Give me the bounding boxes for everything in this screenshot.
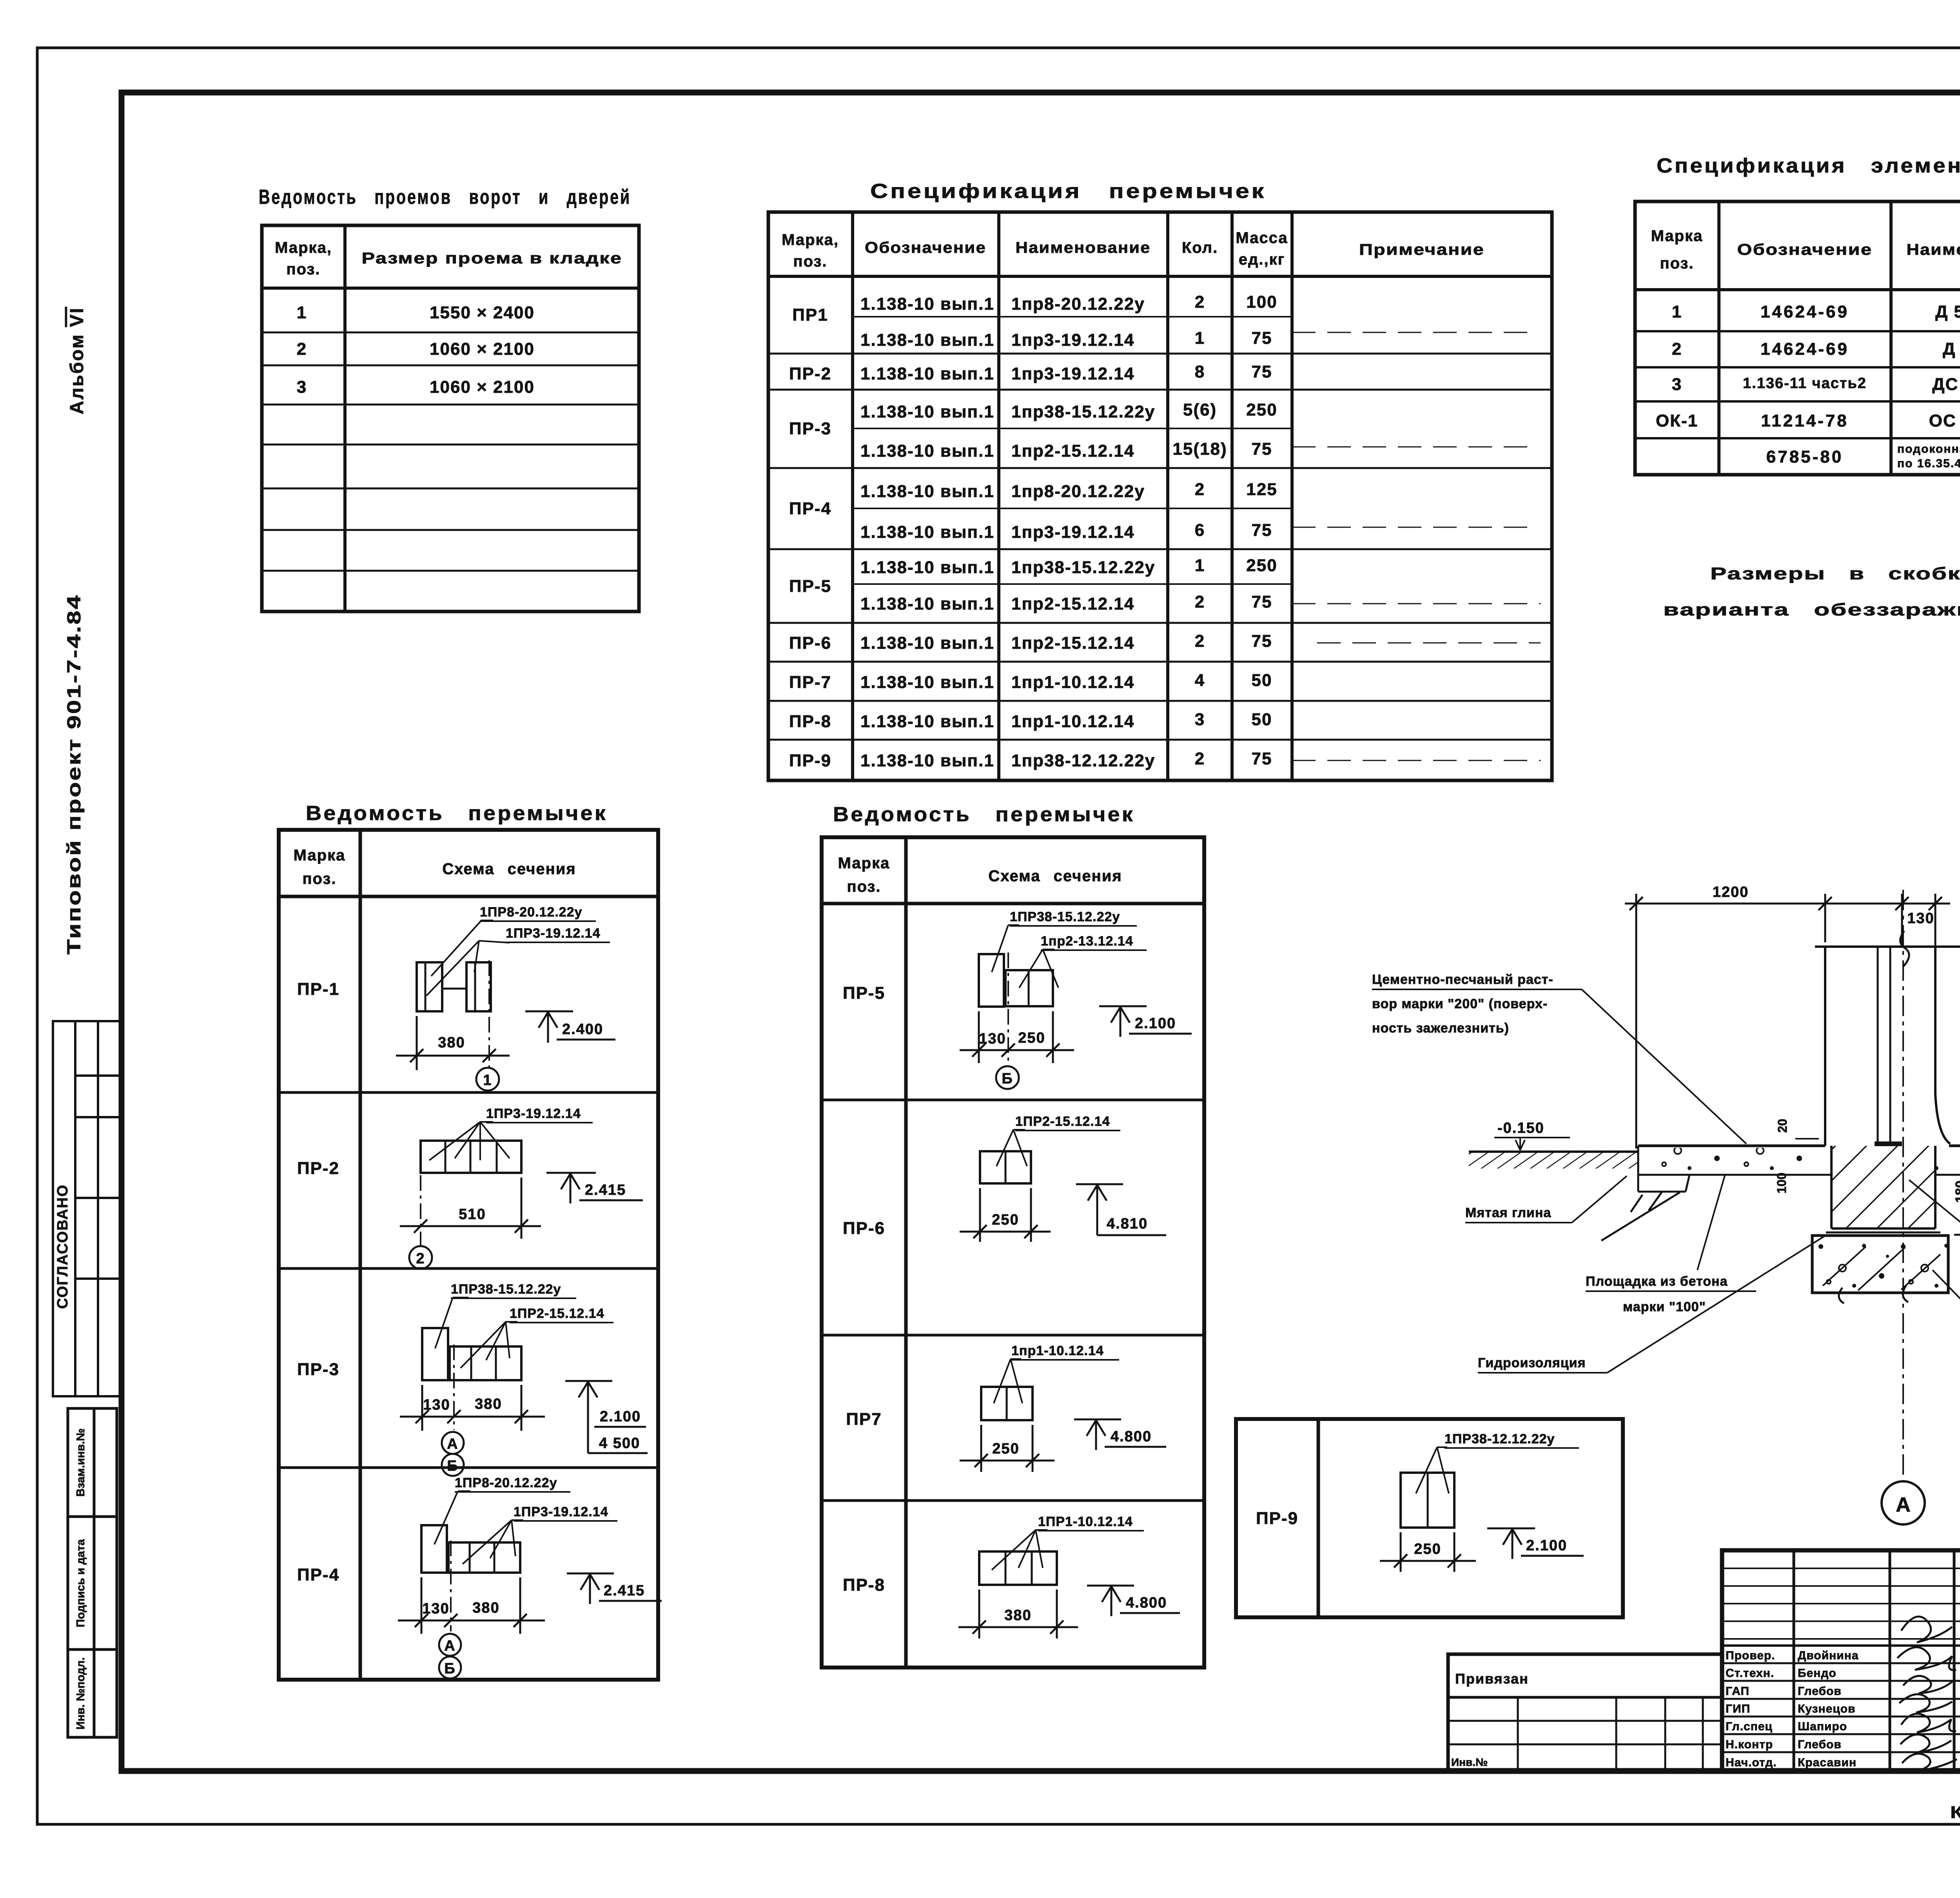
svg-text:ПР-4: ПР-4	[789, 499, 831, 518]
PR-5 node circle B	[996, 1066, 1019, 1089]
svg-text:Глебов: Глебов	[1798, 1738, 1842, 1751]
leader fundament	[1933, 1270, 1960, 1341]
node circle A	[1882, 1481, 1925, 1524]
svg-text:1.136-11 часть2: 1.136-11 часть2	[1743, 375, 1867, 392]
svg-text:1.138-10 вып.1: 1.138-10 вып.1	[860, 673, 995, 692]
PR-2 centerline	[420, 1175, 421, 1246]
svg-text:Ведомость перемычек: Ведомость перемычек	[306, 802, 608, 825]
svg-text:1: 1	[1195, 556, 1205, 575]
PR-2 node circle 2	[409, 1246, 432, 1269]
svg-text:2.400: 2.400	[562, 1021, 603, 1038]
PR-7 elevation 4.800	[1074, 1419, 1166, 1450]
svg-text:4 500: 4 500	[599, 1435, 640, 1452]
svg-text:Спецификация элементов заполне: Спецификация элементов заполнения проемо…	[1657, 154, 1960, 177]
dim 20	[1795, 1138, 1819, 1140]
svg-text:варианта обеззараживания питье: варианта обеззараживания питьевых вод.	[1663, 600, 1960, 619]
PR-6 leader lines	[996, 1130, 1027, 1166]
svg-text:180: 180	[1953, 1181, 1960, 1203]
svg-text:100: 100	[1775, 1172, 1789, 1193]
PR-8 leader fan	[992, 1530, 1047, 1570]
svg-text:1пр38-15.12.22у: 1пр38-15.12.22у	[1011, 402, 1155, 421]
PR-4 dims 130 380	[398, 1577, 545, 1634]
svg-text:130: 130	[979, 1031, 1006, 1047]
svg-text:2: 2	[1195, 631, 1205, 651]
svg-text:ОС 12-15В: ОС 12-15В	[1929, 411, 1960, 430]
leader glina	[1572, 1176, 1627, 1223]
svg-text:поз.: поз.	[847, 878, 881, 895]
svg-text:А: А	[447, 1436, 458, 1452]
svg-text:1.138-10 вып.1: 1.138-10 вып.1	[860, 330, 995, 350]
svg-text:Кол.: Кол.	[1182, 239, 1218, 256]
svg-text:1ПР3-19.12.14: 1ПР3-19.12.14	[506, 926, 601, 941]
PR-3 leader lines	[435, 1297, 468, 1348]
svg-text:1060 × 2100: 1060 × 2100	[430, 339, 535, 359]
svg-text:ПР-8: ПР-8	[789, 712, 831, 731]
excavation slope	[1601, 1192, 1680, 1241]
wall cut top line	[1815, 945, 1960, 948]
row PR-5 schematic	[979, 925, 1058, 1007]
svg-text:ПР-2: ПР-2	[789, 364, 831, 383]
svg-text:75: 75	[1252, 521, 1272, 540]
svg-text:Размер проема в кладке: Размер проема в кладке	[362, 250, 622, 267]
svg-text:1200: 1200	[1713, 884, 1749, 900]
svg-text:1ПР8-20.12.22у: 1ПР8-20.12.22у	[455, 1475, 557, 1490]
PR-4 centerline	[450, 1541, 452, 1631]
svg-text:Глебов: Глебов	[1798, 1685, 1842, 1698]
svg-text:1ПР2-15.12.14: 1ПР2-15.12.14	[1015, 1114, 1110, 1129]
svg-text:Двойнина: Двойнина	[1798, 1649, 1859, 1662]
svg-text:14624-69: 14624-69	[1760, 339, 1849, 359]
svg-text:Марка,: Марка,	[275, 239, 332, 256]
svg-text:8: 8	[1195, 362, 1205, 381]
wall break squiggle	[1900, 931, 1909, 966]
svg-text:Д 52-ппВ: Д 52-ппВ	[1935, 302, 1960, 321]
svg-text:ОК-1: ОК-1	[1656, 411, 1698, 430]
PR-3 node circle B	[442, 1454, 464, 1476]
PR-3 node circle A	[442, 1432, 464, 1454]
svg-text:1.138-10 вып.1: 1.138-10 вып.1	[860, 294, 995, 314]
svg-text:Спецификация перемычек: Спецификация перемычек	[870, 180, 1266, 203]
PR-4 node circle A	[439, 1634, 461, 1656]
svg-text:Схема сечения: Схема сечения	[442, 860, 576, 878]
PR-5 right block	[1005, 970, 1053, 1006]
svg-text:1: 1	[483, 1072, 492, 1089]
svg-text:ПР-2: ПР-2	[297, 1159, 339, 1178]
row PR-4 schematic	[421, 1491, 523, 1573]
brick foundation wall hatched	[1831, 1146, 1935, 1228]
svg-text:250: 250	[1246, 556, 1277, 575]
PR-4 right block	[448, 1542, 520, 1573]
svg-text:1.138-10 вып.1: 1.138-10 вып.1	[860, 482, 995, 501]
table2 grid	[768, 212, 1552, 780]
svg-text:4.800: 4.800	[1111, 1428, 1152, 1445]
svg-text:Взам.инв.№: Взам.инв.№	[74, 1428, 87, 1497]
svg-text:поз.: поз.	[1660, 255, 1694, 272]
svg-text:2: 2	[1195, 749, 1205, 768]
svg-text:Марка: Марка	[294, 847, 346, 864]
row PR-8 schematic	[979, 1530, 1057, 1585]
svg-text:ПР-4: ПР-4	[297, 1565, 339, 1584]
PR-9 leader lines	[1416, 1447, 1449, 1493]
svg-text:75: 75	[1252, 362, 1272, 381]
signature squiggles	[1897, 1617, 1957, 1771]
svg-text:2: 2	[1195, 292, 1205, 312]
svg-text:Марка: Марка	[838, 855, 890, 872]
svg-text:130: 130	[422, 1600, 449, 1617]
svg-text:1пр3-19.12.14: 1пр3-19.12.14	[1011, 330, 1134, 350]
svg-text:2.415: 2.415	[604, 1582, 645, 1599]
PR-3 tall block	[422, 1328, 448, 1380]
PR-5 centerline	[1007, 953, 1009, 1065]
PR-6 block	[980, 1151, 1031, 1183]
svg-text:50: 50	[1252, 710, 1272, 729]
svg-text:4.800: 4.800	[1126, 1595, 1167, 1611]
svg-text:250: 250	[1018, 1030, 1045, 1046]
PR-5 dims 130 250	[960, 1011, 1074, 1063]
svg-text:3: 3	[1672, 375, 1682, 394]
svg-text:ПР-9: ПР-9	[789, 751, 831, 770]
svg-text:1ПР3-19.12.14: 1ПР3-19.12.14	[514, 1504, 608, 1519]
svg-text:1.138-10 вып.1: 1.138-10 вып.1	[860, 751, 995, 770]
svg-text:2.415: 2.415	[585, 1182, 626, 1198]
svg-text:А: А	[1896, 1493, 1911, 1516]
svg-text:1ПР3-19.12.14: 1ПР3-19.12.14	[486, 1106, 581, 1121]
PR-1 elevation 2.400	[525, 1011, 615, 1043]
PR-1 block right	[466, 962, 491, 1011]
wall inner line pair	[1877, 947, 1879, 1143]
PR-2 leader fan	[429, 1122, 510, 1160]
svg-text:1ПР38-15.12.22у: 1ПР38-15.12.22у	[451, 1282, 561, 1297]
row PR-7 schematic	[981, 1359, 1033, 1420]
svg-text:ПР7: ПР7	[846, 1410, 882, 1429]
svg-text:1ПР8-20.12.22у: 1ПР8-20.12.22у	[480, 905, 583, 920]
PR-1 centerline	[488, 960, 490, 1068]
PR-3 centerline	[453, 1345, 455, 1430]
svg-text:Б: Б	[1002, 1071, 1013, 1087]
svg-text:Цементно-песчаный раст-: Цементно-песчаный раст-	[1372, 972, 1553, 987]
svg-text:Б: Б	[447, 1458, 458, 1474]
svg-text:2: 2	[416, 1250, 425, 1267]
svg-text:1ПР2-15.12.14: 1ПР2-15.12.14	[510, 1306, 604, 1321]
PR-2 block	[421, 1141, 521, 1173]
svg-text:1пр3-19.12.14: 1пр3-19.12.14	[1011, 364, 1134, 383]
svg-text:поз.: поз.	[286, 261, 320, 278]
svg-text:1пр2-13.12.14: 1пр2-13.12.14	[1041, 934, 1133, 949]
svg-text:1.138-10 вып.1: 1.138-10 вып.1	[860, 558, 995, 577]
svg-text:1.138-10 вып.1: 1.138-10 вып.1	[860, 441, 995, 461]
PR-5 tall block	[979, 954, 1004, 1007]
svg-text:75: 75	[1252, 749, 1272, 768]
PR-7 dim 250	[960, 1425, 1054, 1472]
svg-text:Марка,: Марка,	[782, 231, 839, 249]
svg-text:Провер.: Провер.	[1726, 1649, 1775, 1662]
ground line left	[1469, 1150, 1638, 1153]
PR-6 elevation 4.810	[1076, 1184, 1166, 1235]
PR-1 leader lines	[431, 920, 493, 976]
svg-text:1пр38-12.12.22у: 1пр38-12.12.22у	[1011, 751, 1155, 770]
wall above floor	[1815, 931, 1960, 1146]
svg-text:ПР-3: ПР-3	[789, 419, 831, 438]
svg-text:1пр3-19.12.14: 1пр3-19.12.14	[1011, 523, 1134, 542]
svg-text:2: 2	[1195, 592, 1205, 611]
row PR-1 schematic	[417, 920, 510, 1011]
svg-text:1: 1	[1672, 302, 1682, 321]
svg-text:Красавин: Красавин	[1798, 1756, 1857, 1769]
svg-text:380: 380	[472, 1600, 499, 1616]
svg-text:ПР-3: ПР-3	[297, 1360, 339, 1379]
PR-3 elevation 2.100/4500	[565, 1381, 648, 1453]
svg-text:Типовой проект 901-7-4.84: Типовой проект 901-7-4.84	[64, 594, 85, 954]
svg-text:1.138-10 вып.1: 1.138-10 вып.1	[860, 633, 995, 653]
svg-text:250: 250	[992, 1441, 1019, 1457]
svg-text:Шапиро: Шапиро	[1798, 1720, 1847, 1733]
svg-text:11214-78: 11214-78	[1761, 411, 1849, 430]
svg-text:1пр2-15.12.14: 1пр2-15.12.14	[1011, 594, 1134, 613]
svg-text:2: 2	[1195, 480, 1205, 499]
dim line 1200/130	[1625, 894, 1950, 1149]
svg-text:1.138-10 вып.1: 1.138-10 вып.1	[860, 523, 995, 542]
PR-2 elevation 2.415	[546, 1173, 643, 1203]
centerline axis A	[1902, 890, 1904, 1480]
PR-5 elevation 2.100	[1099, 1006, 1192, 1037]
svg-text:Ведомость проемов ворот и двер: Ведомость проемов ворот и дверей	[259, 186, 631, 209]
svg-text:Альбом VI: Альбом VI	[67, 307, 87, 414]
waterproofing line	[1826, 1232, 1940, 1234]
svg-text:ность зажелезнить): ность зажелезнить)	[1372, 1021, 1509, 1036]
PR-1 dim 380	[396, 1016, 510, 1070]
PR-9 block	[1401, 1447, 1454, 1528]
svg-text:Примечание: Примечание	[1359, 241, 1485, 258]
dim 180	[1954, 1146, 1960, 1235]
row PR-6 schematic	[980, 1130, 1031, 1183]
svg-text:6785-80: 6785-80	[1766, 447, 1843, 466]
svg-text:Марка: Марка	[1651, 227, 1703, 245]
wall left face	[1824, 947, 1826, 1146]
table3 rows	[1656, 302, 1960, 470]
svg-text:1.138-10 вып.1: 1.138-10 вып.1	[860, 364, 995, 383]
svg-text:Мятая глина: Мятая глина	[1465, 1205, 1551, 1220]
svg-text:ПР-7: ПР-7	[789, 673, 831, 692]
PR-7 leader lines	[994, 1359, 1022, 1403]
svg-text:ПР1: ПР1	[792, 305, 828, 325]
svg-text:15(18): 15(18)	[1172, 439, 1227, 459]
svg-text:1пр1-10.12.14: 1пр1-10.12.14	[1011, 712, 1134, 731]
PRIVYAZAN BOX	[1448, 1654, 1722, 1772]
PR-1 block left	[417, 962, 442, 1011]
svg-text:1.138-10 вып.1: 1.138-10 вып.1	[860, 594, 995, 613]
floor slab	[1638, 1146, 1960, 1192]
svg-text:поз.: поз.	[302, 870, 336, 887]
side strip boxes	[68, 1408, 117, 1737]
svg-text:1пр2-15.12.14: 1пр2-15.12.14	[1011, 633, 1134, 653]
svg-text:20: 20	[1775, 1119, 1789, 1133]
svg-text:75: 75	[1252, 592, 1272, 611]
table2 rows	[789, 292, 1278, 770]
svg-text:ПР-9: ПР-9	[1256, 1509, 1298, 1528]
svg-text:ПР-8: ПР-8	[843, 1575, 885, 1595]
svg-text:75: 75	[1252, 631, 1272, 651]
svg-text:Нач.отд.: Нач.отд.	[1726, 1756, 1777, 1769]
svg-text:Инв. №подл.: Инв. №подл.	[74, 1657, 87, 1729]
svg-text:Гл.спец: Гл.спец	[1726, 1720, 1773, 1733]
svg-text:130: 130	[1907, 910, 1934, 927]
svg-text:Б: Б	[444, 1660, 456, 1677]
svg-text:75: 75	[1252, 439, 1272, 459]
svg-text:Наименование: Наименование	[1016, 239, 1151, 256]
svg-text:ПР-1: ПР-1	[297, 980, 339, 999]
PR-8 elevation 4.800	[1087, 1586, 1180, 1616]
svg-text:ДС 20-9-У: ДС 20-9-У	[1932, 375, 1960, 394]
svg-text:6: 6	[1195, 521, 1205, 540]
TITLE BLOCK	[1722, 1550, 1960, 1772]
svg-text:250: 250	[992, 1212, 1019, 1228]
title block signature labels	[1726, 1649, 1859, 1769]
svg-text:14624-69: 14624-69	[1760, 302, 1849, 321]
svg-text:-0.150: -0.150	[1497, 1120, 1544, 1136]
svg-text:подоконная плита: подоконная плита	[1897, 443, 1960, 455]
leader ploshchadka	[1697, 1176, 1725, 1270]
PR-9 elevation 2.100	[1487, 1528, 1584, 1559]
svg-text:3: 3	[297, 377, 307, 397]
svg-text:380: 380	[438, 1034, 465, 1051]
row PR-3 schematic	[422, 1297, 521, 1380]
svg-text:Подпись и дата: Подпись и дата	[74, 1539, 87, 1628]
svg-text:1.138-10 вып.1: 1.138-10 вып.1	[860, 402, 995, 421]
foundation block	[1812, 1236, 1948, 1293]
svg-text:2.100: 2.100	[1526, 1537, 1567, 1554]
svg-text:ПР-6: ПР-6	[843, 1219, 885, 1238]
svg-text:380: 380	[475, 1396, 502, 1412]
svg-text:5(6): 5(6)	[1183, 400, 1217, 419]
table4 grid	[279, 830, 658, 1680]
svg-text:ГАП: ГАП	[1726, 1685, 1749, 1698]
svg-text:по 16.35.45: по 16.35.45	[1897, 457, 1960, 470]
PR-6 dim 250	[960, 1188, 1051, 1242]
svg-text:2.100: 2.100	[600, 1408, 641, 1425]
svg-text:1пр2-15.12.14: 1пр2-15.12.14	[1011, 441, 1134, 461]
svg-text:1пр1-10.12.14: 1пр1-10.12.14	[1011, 673, 1134, 692]
svg-text:125: 125	[1246, 480, 1277, 499]
svg-text:ПР-6: ПР-6	[789, 633, 831, 653]
PR-1 tie line	[442, 988, 466, 990]
svg-text:поз.: поз.	[793, 253, 827, 270]
PR-1 node circle 1	[476, 1068, 499, 1091]
svg-text:380: 380	[1004, 1607, 1031, 1624]
svg-text:А: А	[444, 1638, 456, 1654]
PR-2 dim 510	[400, 1178, 541, 1239]
svg-text:75: 75	[1252, 328, 1272, 348]
row PR-2 schematic	[421, 1122, 521, 1173]
svg-text:1: 1	[1195, 328, 1205, 348]
svg-text:1ПР38-12.12.22у: 1ПР38-12.12.22у	[1445, 1432, 1555, 1446]
svg-text:2: 2	[1672, 339, 1682, 359]
svg-text:1пр8-20.12.22у: 1пр8-20.12.22у	[1011, 482, 1145, 501]
svg-text:Площадка из бетона: Площадка из бетона	[1586, 1274, 1728, 1289]
svg-text:510: 510	[459, 1206, 486, 1223]
svg-text:1550 × 2400: 1550 × 2400	[430, 303, 535, 322]
svg-text:250: 250	[1414, 1541, 1441, 1557]
svg-text:Инв.№: Инв.№	[1451, 1756, 1488, 1768]
PR-3 right block	[450, 1346, 521, 1380]
soglasovano grid	[53, 1021, 121, 1396]
PR-9 dim 250	[1380, 1532, 1476, 1572]
svg-text:4.810: 4.810	[1107, 1216, 1148, 1232]
svg-text:130: 130	[423, 1397, 450, 1413]
svg-text:Масса: Масса	[1236, 229, 1288, 247]
leader gidro	[1607, 1235, 1827, 1373]
svg-text:ед.,кг: ед.,кг	[1239, 251, 1285, 268]
PR-4 node circle B	[439, 1657, 461, 1678]
svg-text:4: 4	[1195, 671, 1205, 690]
svg-text:Н.контр: Н.контр	[1726, 1738, 1773, 1751]
leader red brick	[1909, 1180, 1960, 1287]
PR-7 block	[981, 1387, 1033, 1420]
leader cement	[1582, 989, 1746, 1144]
svg-text:Бендо: Бендо	[1798, 1667, 1837, 1680]
svg-text:марки "100": марки "100"	[1623, 1299, 1706, 1314]
PR-8 dim 380	[958, 1590, 1078, 1639]
svg-text:50: 50	[1252, 671, 1272, 690]
svg-text:вор марки "200" (поверх-: вор марки "200" (поверх-	[1372, 996, 1548, 1011]
svg-text:1ПР38-15.12.22у: 1ПР38-15.12.22у	[1010, 909, 1120, 924]
svg-text:Д 56-17: Д 56-17	[1943, 339, 1960, 359]
svg-text:Ст.техн.: Ст.техн.	[1726, 1667, 1774, 1680]
PR-8 block	[979, 1551, 1057, 1585]
slab concrete texture	[1641, 1148, 1824, 1173]
table3 grid	[1635, 201, 1960, 475]
PR-9 BOX	[1236, 1419, 1623, 1617]
PR-3 dims 130 380	[400, 1385, 545, 1431]
svg-text:1пр1-10.12.14: 1пр1-10.12.14	[1011, 1343, 1104, 1358]
PR-5 leader lines	[992, 925, 1019, 972]
svg-text:250: 250	[1246, 400, 1277, 419]
svg-text:2.100: 2.100	[1135, 1015, 1176, 1032]
svg-text:Привязан: Привязан	[1455, 1671, 1529, 1687]
svg-text:Обозначение: Обозначение	[1737, 241, 1873, 258]
svg-text:Ведомость перемычек: Ведомость перемычек	[833, 803, 1135, 826]
PR-4 tall block	[421, 1525, 447, 1573]
wall right face with plinth flare	[1935, 947, 1950, 1144]
svg-text:1пр38-15.12.22у: 1пр38-15.12.22у	[1011, 558, 1155, 577]
svg-text:Гидроизоляция: Гидроизоляция	[1478, 1355, 1586, 1370]
svg-text:Копировал Еремченко: Копировал Еремченко	[1950, 1803, 1960, 1822]
svg-text:Кузнецов: Кузнецов	[1798, 1702, 1856, 1715]
svg-text:100: 100	[1246, 292, 1277, 312]
svg-text:1.138-10 вып.1: 1.138-10 вып.1	[860, 712, 995, 731]
svg-text:2: 2	[297, 339, 307, 359]
svg-text:3: 3	[1195, 710, 1205, 729]
svg-text:ПР-5: ПР-5	[843, 983, 885, 1003]
PR-4 elevation 2.415	[567, 1573, 662, 1604]
table5 grid	[822, 837, 1204, 1668]
svg-text:1: 1	[297, 303, 307, 322]
svg-text:1ПР1-10.12.14: 1ПР1-10.12.14	[1038, 1514, 1133, 1529]
svg-text:Размеры в скобках даны для: Размеры в скобках даны для	[1710, 564, 1960, 583]
svg-text:1060 × 2100: 1060 × 2100	[430, 377, 535, 397]
PR-4 leader lines	[434, 1491, 470, 1544]
svg-text:ГИП: ГИП	[1726, 1702, 1750, 1715]
svg-text:1пр8-20.12.22у: 1пр8-20.12.22у	[1011, 294, 1145, 314]
svg-text:Обозначение: Обозначение	[865, 239, 986, 256]
svg-text:Схема сечения: Схема сечения	[988, 867, 1122, 885]
table1 grid	[262, 225, 639, 611]
ground hatch	[1469, 1153, 1638, 1169]
svg-text:ПР-5: ПР-5	[789, 577, 831, 596]
svg-text:СОГЛАСОВАНО: СОГЛАСОВАНО	[54, 1184, 71, 1309]
svg-text:Наименование: Наименование	[1907, 241, 1960, 258]
